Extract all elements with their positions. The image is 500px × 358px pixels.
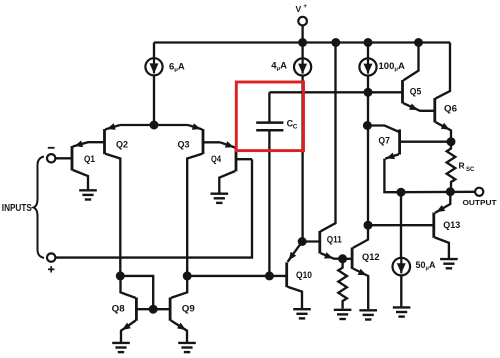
ground Q4 xyxy=(211,194,229,203)
svg-text:Q10: Q10 xyxy=(296,270,312,281)
current source 100uA xyxy=(359,58,405,75)
svg-text:Q9: Q9 xyxy=(182,303,195,314)
transistor Q2 xyxy=(105,123,129,276)
svg-text:Q7: Q7 xyxy=(378,135,390,146)
output terminal xyxy=(463,188,498,207)
node input tail xyxy=(150,121,159,130)
non-inverting input terminal xyxy=(47,253,55,272)
ground Q13 xyxy=(440,259,458,268)
inputs brace xyxy=(34,157,45,259)
node rail-Q11 xyxy=(331,38,340,47)
ground Q1 xyxy=(79,190,97,199)
transistor Q8 xyxy=(112,276,137,343)
ground Q12 xyxy=(359,310,377,319)
current source 4uA xyxy=(271,58,311,75)
node rail-V+ xyxy=(298,38,307,47)
node Q11 emitter xyxy=(338,254,347,263)
wire 4uA to Q10 emitter node xyxy=(301,76,303,242)
transistor Q7 xyxy=(367,126,451,193)
wire input tail xyxy=(120,124,188,126)
current source 50uA xyxy=(393,258,436,276)
ground Q8 xyxy=(112,343,130,352)
node Q10 emitter xyxy=(298,237,307,246)
transistor Q5 xyxy=(403,43,435,111)
ground Q9 xyxy=(178,343,196,352)
ground 50uA xyxy=(393,307,411,316)
transistor Q10 xyxy=(287,242,312,309)
node 100uA-Cc-Q5 xyxy=(364,88,373,97)
ground resistor xyxy=(334,310,352,319)
transistor Q9 xyxy=(170,276,195,343)
svg-text:INPUTS: INPUTS xyxy=(2,203,32,214)
node Q12 collector xyxy=(364,221,373,230)
node rail-Q5 xyxy=(414,38,423,47)
svg-text:Q1: Q1 xyxy=(84,154,96,165)
node Q6 emitter xyxy=(447,137,456,146)
node Q3 collector - Q9 xyxy=(183,271,192,280)
svg-text:R: R xyxy=(459,161,465,171)
svg-text:OUTPUT: OUTPUT xyxy=(463,198,498,207)
transistor Q11 xyxy=(320,43,343,259)
transistor Q1 xyxy=(72,141,104,191)
svg-text:100μA: 100μA xyxy=(379,61,405,73)
inverting input terminal xyxy=(47,148,72,163)
transistor Q4 xyxy=(211,141,252,193)
transistor Q12 xyxy=(343,225,380,309)
wire Q4 base to + input xyxy=(56,159,252,257)
node rail-100uA xyxy=(364,38,373,47)
wire rail to 4uA source xyxy=(301,43,303,59)
svg-text:Q3: Q3 xyxy=(178,140,190,151)
wire Q8-Q9 bases xyxy=(136,308,170,310)
wire Q8 collector-base tie xyxy=(120,276,153,309)
node Cc bottom xyxy=(265,271,274,280)
svg-text:Q13: Q13 xyxy=(443,220,460,231)
svg-text:Q2: Q2 xyxy=(116,140,128,151)
node 50uA top xyxy=(397,188,406,197)
wire rail to 100uA source xyxy=(367,43,369,59)
svg-text:Q5: Q5 xyxy=(410,86,422,97)
label INPUTS xyxy=(2,203,32,214)
svg-text:C: C xyxy=(293,124,298,131)
resistor RSC xyxy=(447,142,475,192)
capacitor Cc xyxy=(256,92,298,276)
svg-text:V: V xyxy=(296,4,302,14)
resistor Q12 base-emitter xyxy=(338,259,347,309)
node output xyxy=(446,187,455,196)
svg-text:Q6: Q6 xyxy=(444,103,457,114)
highlight box around Cc xyxy=(236,82,303,151)
svg-text:SC: SC xyxy=(466,167,475,173)
transistor Q3 xyxy=(178,123,221,276)
wire 100uA down xyxy=(367,76,369,226)
svg-text:Q4: Q4 xyxy=(211,154,222,165)
wire Q9 collector to Q10 base xyxy=(187,275,287,277)
svg-text:+: + xyxy=(303,3,307,10)
wire V+ supply rail xyxy=(154,41,450,43)
svg-text:Q11: Q11 xyxy=(327,235,343,246)
node Q2 collector - Q8 xyxy=(116,271,125,280)
current source 6uA xyxy=(145,58,185,75)
wire rail to 6uA source xyxy=(153,43,155,59)
svg-text:Q12: Q12 xyxy=(362,252,380,263)
wire 50uA to ground xyxy=(400,275,402,307)
transistor Q6 xyxy=(435,43,457,142)
wire output to 50uA xyxy=(400,192,402,258)
svg-text:4μA: 4μA xyxy=(271,61,287,73)
V+ terminal xyxy=(296,3,308,42)
transistor Q13 xyxy=(368,192,460,259)
wire output node xyxy=(401,191,475,194)
wire 6uA to input tail xyxy=(153,75,155,125)
wire Q10 node to Q11 base xyxy=(302,240,320,242)
node Q7 collector xyxy=(363,121,372,130)
node Q8-Q9 base xyxy=(149,305,158,314)
svg-text:Q8: Q8 xyxy=(112,303,125,314)
svg-text:6μA: 6μA xyxy=(169,61,185,73)
wire Cc top to Q5 base xyxy=(269,91,402,93)
ground Q10 xyxy=(293,309,311,318)
